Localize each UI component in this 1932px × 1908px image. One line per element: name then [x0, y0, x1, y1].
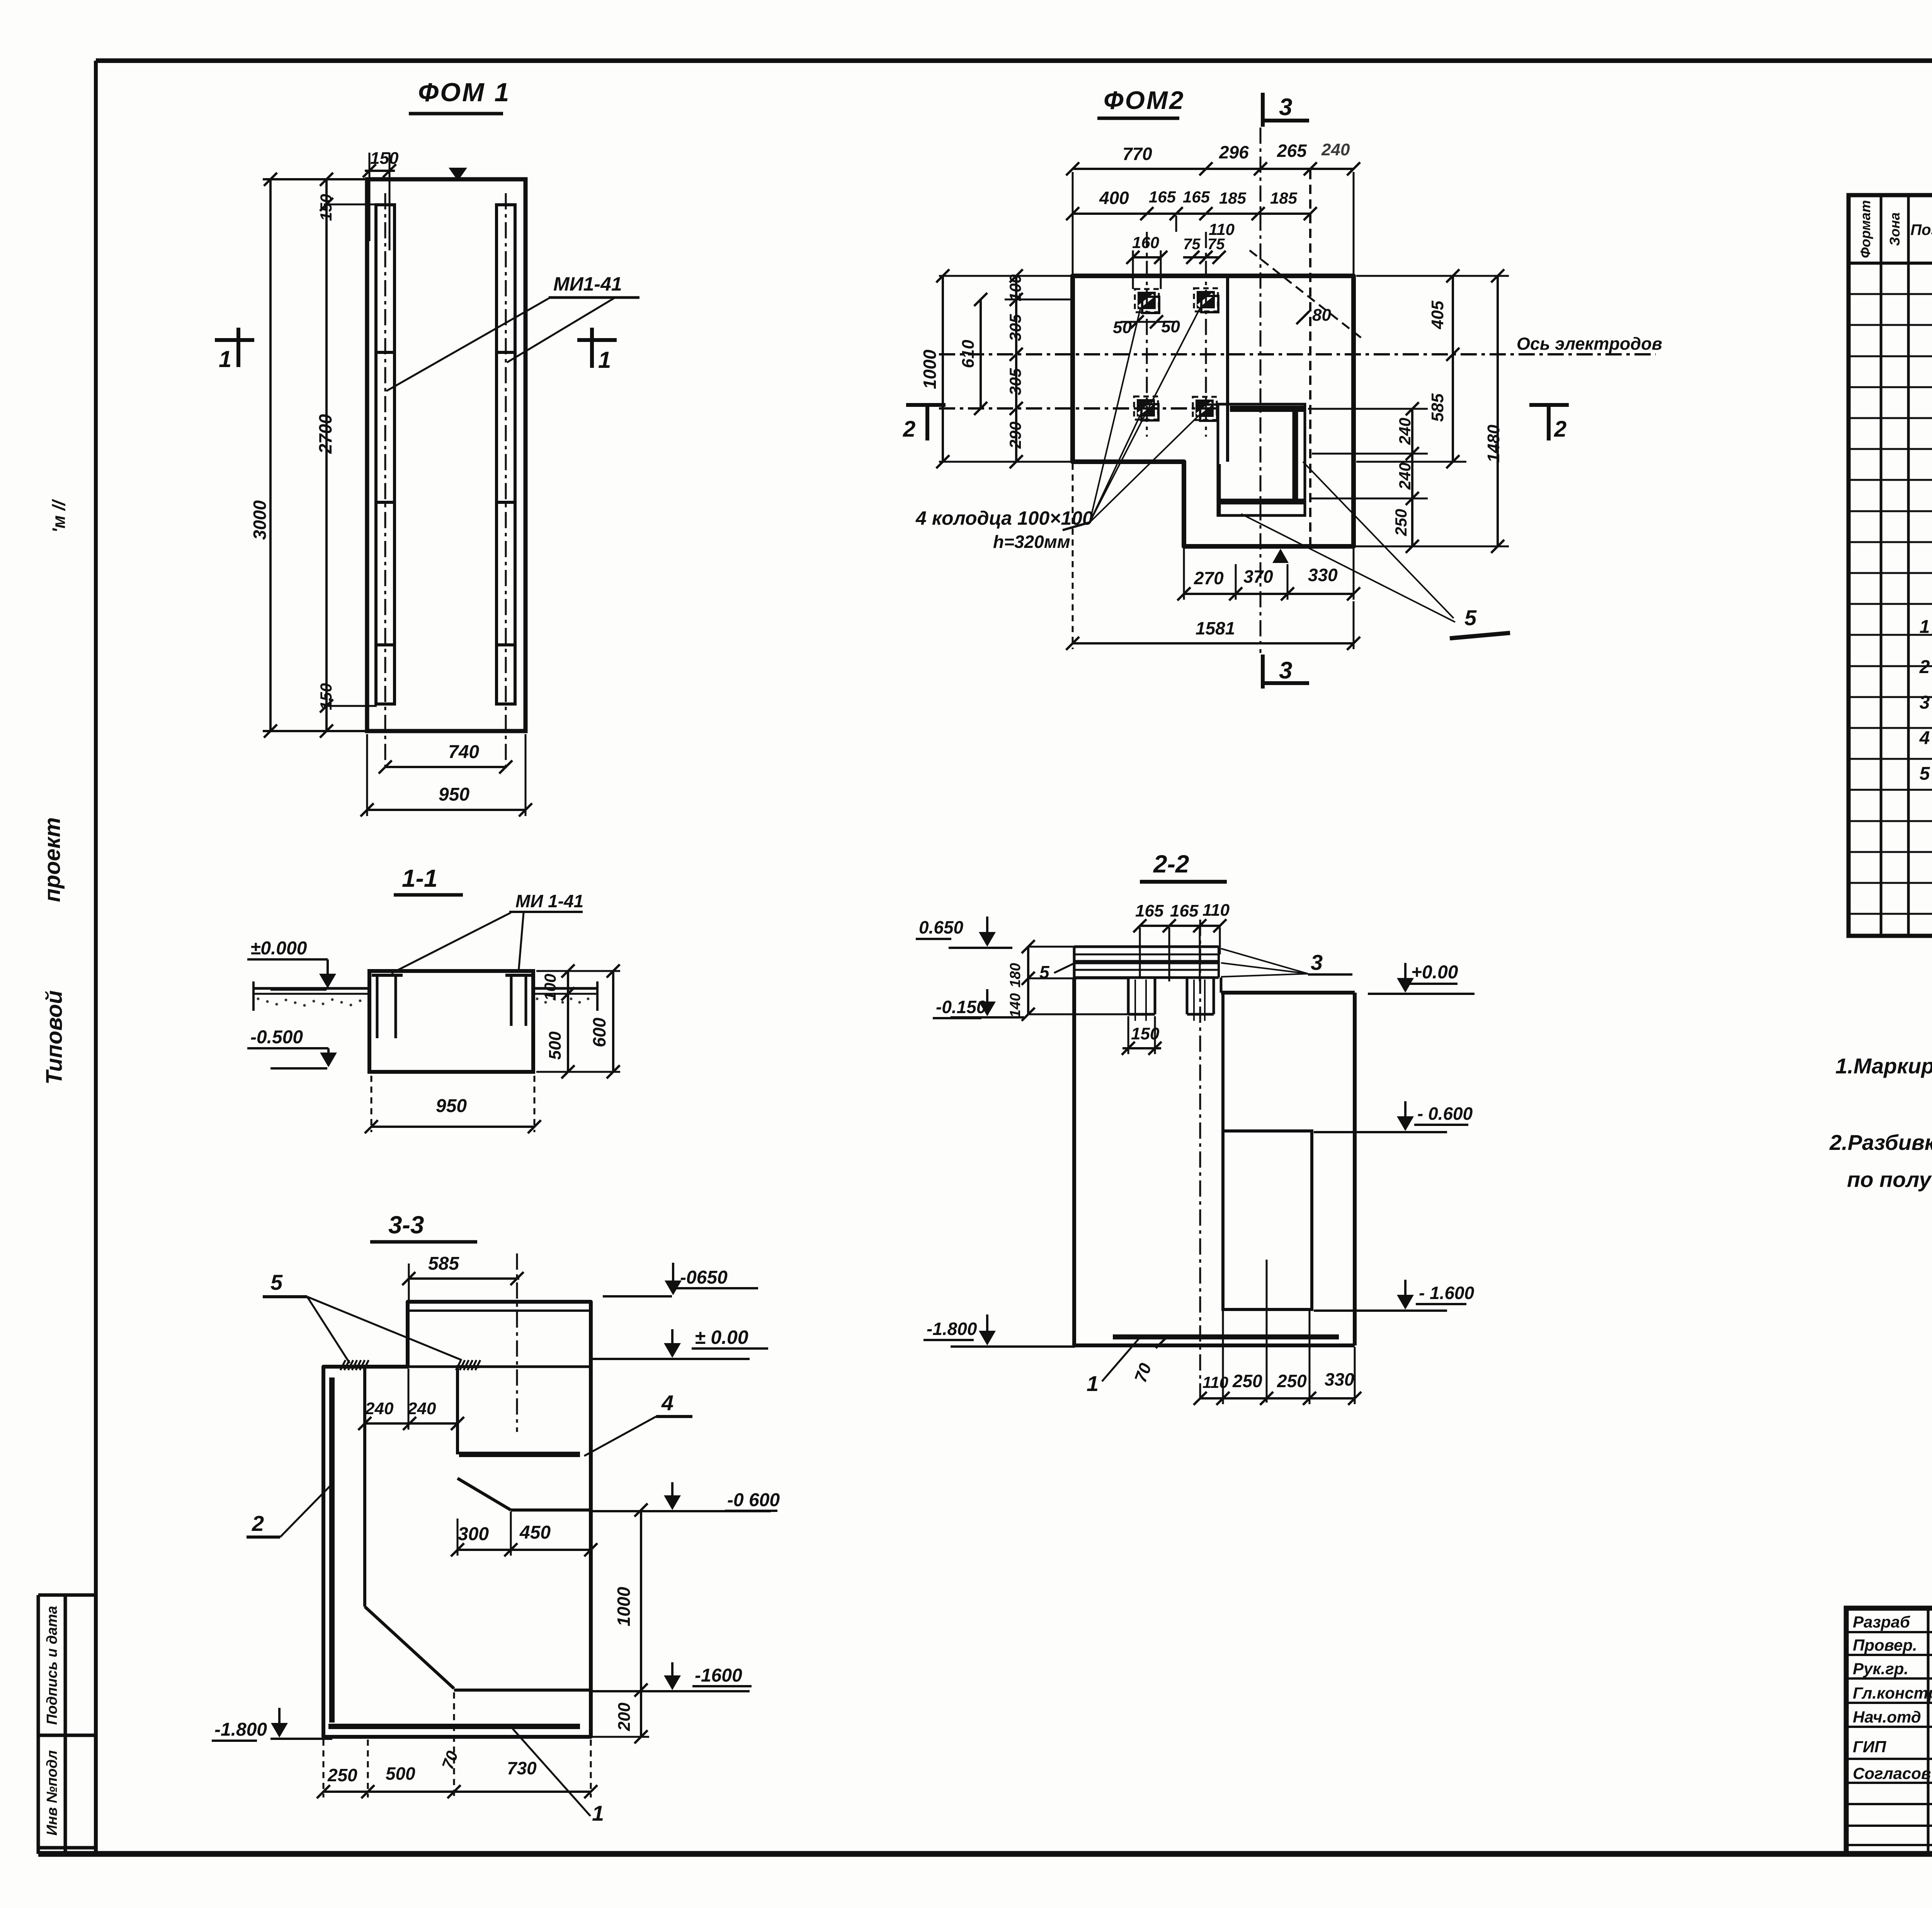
svg-text:Гл.констр: Гл.констр [1853, 1684, 1932, 1702]
svg-text:165: 165 [1135, 901, 1164, 920]
svg-text:3-3: 3-3 [388, 1211, 424, 1239]
svg-text:3000: 3000 [250, 500, 270, 540]
svg-text:2700: 2700 [315, 414, 335, 454]
svg-text:ФОМ2: ФОМ2 [1104, 86, 1185, 114]
svg-text:370: 370 [1243, 566, 1273, 587]
svg-text:270: 270 [1194, 568, 1224, 588]
svg-text:100: 100 [541, 974, 559, 1001]
svg-text:140: 140 [1007, 993, 1024, 1017]
svg-text:по полученному оборудова: по полученному оборудованию. [1847, 1167, 1932, 1192]
svg-text:Согласов: Согласов [1853, 1764, 1931, 1782]
svg-text:2: 2 [1554, 417, 1566, 442]
svg-text:2.Разбивку колодцев по: 2.Разбивку колодцев под анкерные болты у… [1829, 1130, 1932, 1155]
svg-text:305: 305 [1006, 314, 1024, 341]
svg-text:-1.800: -1.800 [214, 1719, 267, 1740]
svg-text:4: 4 [1919, 728, 1930, 748]
svg-text:290: 290 [1006, 422, 1024, 449]
svg-text:3: 3 [1279, 657, 1292, 684]
svg-text:1480: 1480 [1484, 425, 1503, 463]
svg-text:180: 180 [1007, 963, 1024, 987]
svg-text:1581: 1581 [1196, 618, 1235, 638]
svg-text:- 1.600: - 1.600 [1419, 1283, 1475, 1303]
svg-text:405: 405 [1428, 301, 1447, 330]
svg-text:Зона: Зона [1887, 213, 1903, 246]
svg-text:2: 2 [252, 1511, 264, 1536]
svg-text:296: 296 [1219, 142, 1249, 162]
svg-text:h=320мм: h=320мм [993, 532, 1070, 552]
svg-text:2: 2 [1919, 657, 1930, 677]
svg-text:-0 600: -0 600 [727, 1490, 780, 1510]
svg-text:Провер.: Провер. [1853, 1636, 1917, 1654]
svg-text:250: 250 [1277, 1371, 1307, 1391]
svg-text:200: 200 [615, 1702, 634, 1731]
svg-text:4 колодца 100×100: 4 колодца 100×100 [915, 507, 1093, 529]
svg-text:0.650: 0.650 [919, 917, 964, 937]
svg-text:585: 585 [1428, 393, 1447, 422]
svg-text:240: 240 [365, 1399, 394, 1418]
svg-text:100: 100 [1006, 274, 1024, 301]
svg-text:Типовой: Типовой [42, 990, 67, 1085]
svg-text:500: 500 [546, 1031, 565, 1060]
svg-text:МИ 1-41: МИ 1-41 [515, 891, 583, 911]
svg-text:50: 50 [1113, 318, 1132, 337]
svg-text:400: 400 [1099, 188, 1129, 208]
svg-text:1.Маркировочную схему подз: 1.Маркировочную схему подземного хозяйст… [1835, 1054, 1932, 1078]
svg-text:+0.00: +0.00 [1411, 962, 1458, 983]
svg-text:240: 240 [1321, 140, 1350, 159]
svg-text:600: 600 [589, 1017, 609, 1047]
svg-text:Подпись и дата: Подпись и дата [44, 1606, 60, 1725]
svg-text:950: 950 [439, 784, 469, 805]
svg-text:730: 730 [507, 1758, 537, 1778]
svg-text:Нач.отд: Нач.отд [1853, 1708, 1921, 1726]
svg-text:1: 1 [1920, 617, 1930, 637]
svg-text:Ось электродов: Ось электродов [1517, 334, 1662, 354]
svg-text:300: 300 [458, 1524, 489, 1544]
svg-text:330: 330 [1325, 1369, 1354, 1389]
svg-text:ГИП: ГИП [1853, 1738, 1886, 1756]
svg-text:'м //: 'м // [49, 499, 69, 533]
svg-text:240: 240 [407, 1399, 436, 1418]
svg-text:950: 950 [436, 1096, 467, 1116]
svg-text:Рук.гр.: Рук.гр. [1853, 1660, 1908, 1678]
svg-text:3: 3 [1311, 950, 1323, 974]
svg-text:Инв №подл: Инв №подл [44, 1750, 60, 1836]
svg-text:305: 305 [1006, 368, 1024, 395]
svg-text:3: 3 [1279, 94, 1292, 121]
svg-text:± 0.00: ± 0.00 [695, 1326, 748, 1348]
svg-text:1: 1 [592, 1801, 604, 1825]
svg-text:ФОМ 1: ФОМ 1 [418, 78, 510, 107]
svg-text:-0.150: -0.150 [936, 997, 986, 1017]
svg-text:1: 1 [219, 346, 231, 372]
svg-text:Поз: Поз [1910, 221, 1932, 238]
svg-text:585: 585 [428, 1253, 459, 1274]
svg-text:330: 330 [1308, 565, 1338, 585]
svg-text:185: 185 [1219, 189, 1247, 207]
svg-text:240: 240 [1396, 418, 1414, 445]
svg-text:610: 610 [959, 340, 978, 368]
svg-text:165: 165 [1149, 188, 1176, 206]
svg-text:5: 5 [1920, 764, 1930, 784]
svg-text:2-2: 2-2 [1153, 850, 1189, 878]
svg-text:1000: 1000 [614, 1587, 634, 1626]
svg-text:±0.000: ±0.000 [250, 938, 307, 959]
svg-text:450: 450 [519, 1522, 551, 1543]
svg-text:-1.800: -1.800 [927, 1319, 977, 1339]
svg-text:50: 50 [1161, 317, 1180, 336]
svg-text:500: 500 [386, 1763, 415, 1784]
svg-text:75: 75 [1183, 236, 1201, 253]
svg-text:Формат: Формат [1857, 200, 1873, 258]
svg-text:185: 185 [1270, 189, 1298, 207]
svg-text:2: 2 [903, 417, 915, 442]
svg-text:1: 1 [1087, 1371, 1099, 1396]
svg-text:3: 3 [1920, 692, 1930, 713]
svg-text:1000: 1000 [920, 349, 940, 389]
svg-text:770: 770 [1122, 144, 1152, 164]
svg-text:-1600: -1600 [695, 1665, 742, 1686]
svg-text:160: 160 [1132, 233, 1159, 252]
svg-text:4: 4 [661, 1391, 673, 1415]
svg-text:150: 150 [317, 194, 335, 221]
svg-text:1-1: 1-1 [402, 864, 438, 892]
svg-text:250: 250 [1392, 509, 1410, 536]
svg-text:-0650: -0650 [680, 1267, 728, 1288]
svg-text:165: 165 [1183, 188, 1210, 206]
svg-text:5: 5 [1464, 605, 1477, 630]
svg-text:110: 110 [1202, 901, 1230, 920]
svg-text:740: 740 [448, 742, 479, 762]
svg-text:-0.500: -0.500 [250, 1027, 303, 1048]
svg-text:165: 165 [1170, 901, 1199, 920]
svg-text:Разраб: Разраб [1853, 1613, 1910, 1631]
svg-text:1: 1 [598, 347, 611, 373]
svg-text:проект: проект [40, 817, 65, 902]
svg-text:265: 265 [1277, 141, 1307, 161]
svg-text:240: 240 [1396, 463, 1414, 490]
svg-text:МИ1-41: МИ1-41 [553, 273, 622, 295]
svg-text:- 0.600: - 0.600 [1417, 1104, 1473, 1124]
svg-text:80: 80 [1312, 306, 1331, 325]
svg-text:110: 110 [1209, 220, 1235, 238]
svg-text:250: 250 [327, 1765, 357, 1785]
svg-text:150: 150 [1131, 1024, 1160, 1043]
svg-text:250: 250 [1232, 1371, 1262, 1391]
svg-text:5: 5 [270, 1270, 283, 1294]
svg-text:110: 110 [1202, 1373, 1228, 1391]
